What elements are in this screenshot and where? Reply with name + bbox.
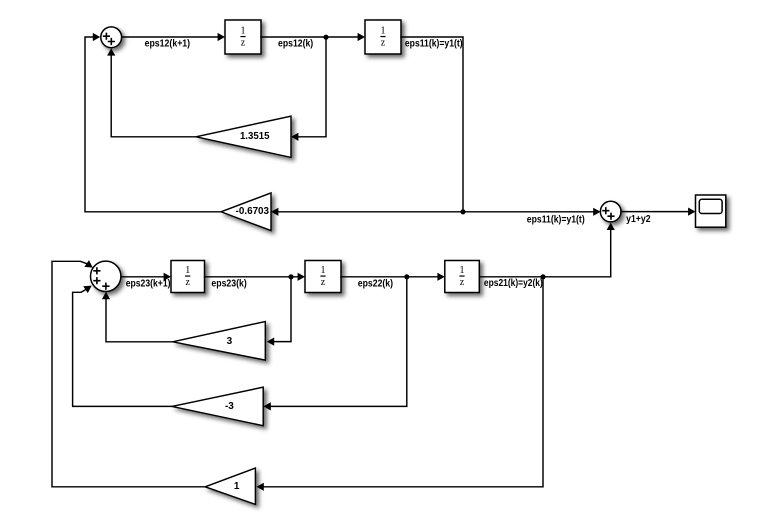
svg-text:-3: -3: [225, 401, 234, 412]
svg-text:-0.6703: -0.6703: [236, 206, 270, 217]
arrow into gain 1: [256, 483, 263, 491]
sum S1: [101, 27, 122, 48]
wire UD1 output to UD2: [261, 36, 358, 38]
svg-text:eps11(k)=y1(t): eps11(k)=y1(t): [405, 38, 463, 49]
S1 plus sign input 1: [104, 33, 110, 39]
unit delay UD2: [365, 20, 401, 54]
UD1 1/z value: [240, 26, 245, 49]
arrow into UD4: [298, 273, 305, 281]
wire branch down to gain -3: [271, 277, 407, 407]
arrow into gain -3: [263, 402, 270, 410]
wire gain -3 output up to Sum3 input 2: [73, 290, 172, 407]
arrow into UD5: [437, 273, 444, 281]
arrow into Sum1 bottom port: [107, 48, 115, 55]
unit delay UD1: [225, 20, 261, 54]
S2 plus sign input 2: [608, 213, 614, 219]
wire UD4 output to UD5: [341, 276, 437, 278]
sum S3: [91, 261, 121, 291]
wire gain 1.3515 output to Sum1 bottom input: [111, 55, 196, 137]
arrow into gain -0.6703: [271, 208, 278, 216]
svg-text:1.3515: 1.3515: [240, 131, 270, 142]
S1 plus sign input 2: [109, 39, 115, 45]
wire y1 to Sum2 left input: [463, 211, 594, 213]
wire UD2 output down to middle bus: [401, 37, 463, 212]
arrow into Scope: [688, 208, 695, 216]
junction node eps21(k): [540, 274, 545, 279]
arrow into UD3: [164, 273, 171, 281]
svg-text:1: 1: [234, 481, 240, 492]
UD4 1/z value: [320, 265, 325, 288]
junction node eps23(k): [288, 274, 293, 279]
UD3 1/z value: [185, 265, 190, 288]
S3 plus sign input 3: [103, 283, 109, 289]
arrow into gain 1.3515: [291, 133, 298, 141]
S3 plus sign input 1: [94, 268, 100, 274]
arrow into Sum1 left port: [93, 33, 100, 41]
svg-text:eps21(k)=y2(k): eps21(k)=y2(k): [484, 278, 543, 289]
svg-text:eps12(k): eps12(k): [278, 38, 313, 49]
svg-text:eps11(k)=y1(t): eps11(k)=y1(t): [527, 214, 585, 225]
S2 plus sign input 1: [603, 208, 609, 214]
UD5 1/z value: [459, 265, 464, 288]
scope block: [696, 195, 726, 227]
wire Sum1 output to UD1: [122, 36, 218, 38]
unit delay UD5: [445, 261, 480, 293]
junction node eps22(k): [404, 274, 409, 279]
arrow into Sum2 bottom port: [607, 223, 615, 230]
unit delay UD4: [305, 261, 341, 293]
wire branch down to gain 1: [264, 277, 543, 487]
gain G3 value 3: [173, 322, 266, 361]
wire gain 1 output up to Sum3 input 1: [52, 261, 205, 487]
unit delay UD3: [171, 261, 205, 293]
wire branch down to gain 1.3515: [299, 37, 326, 137]
arrow into UD2: [358, 33, 365, 41]
wire UD3 output to UD4: [205, 276, 298, 278]
junction node y1 bus: [460, 209, 465, 214]
wire Sum3 output to UD3: [121, 276, 164, 278]
wire feedback gain -0.6703 output to Sum1 left input: [85, 37, 221, 212]
gain G4 value -3: [172, 387, 263, 426]
arrow into Sum3 bottom port: [102, 292, 110, 299]
wire UD5 output to Sum2 bottom input: [479, 230, 610, 277]
arrow into UD1: [218, 33, 225, 41]
arrow into gain 3: [267, 338, 274, 346]
wire gain 3 output up to Sum3 input 3: [106, 299, 173, 342]
svg-text:3: 3: [227, 336, 233, 347]
gain G5 value 1: [205, 468, 255, 504]
sum S2: [600, 201, 621, 222]
svg-text:eps12(k+1): eps12(k+1): [145, 38, 191, 49]
UD2 1/z value: [380, 26, 385, 49]
svg-text:eps23(k+1): eps23(k+1): [126, 278, 171, 289]
junction node on eps12(k) wire: [323, 35, 328, 40]
S3 plus sign input 2: [94, 278, 100, 284]
gain G2 -0.6703: [221, 193, 271, 231]
arrow into Sum3 input 2: [83, 282, 94, 293]
wire branch down to gain 3: [275, 277, 292, 342]
arrow into Sum2 left port: [593, 208, 600, 216]
gain G1 1.3515: [196, 116, 291, 157]
arrow into Sum3 input 1: [84, 260, 95, 271]
scope screen: [699, 199, 722, 213]
svg-text:y1+y2: y1+y2: [626, 214, 651, 225]
svg-text:eps22(k): eps22(k): [358, 278, 393, 289]
svg-text:eps23(k): eps23(k): [211, 278, 246, 289]
wire Sum2 output to Scope: [621, 211, 689, 213]
wire y1 bus to gain -0.6703: [279, 211, 464, 213]
